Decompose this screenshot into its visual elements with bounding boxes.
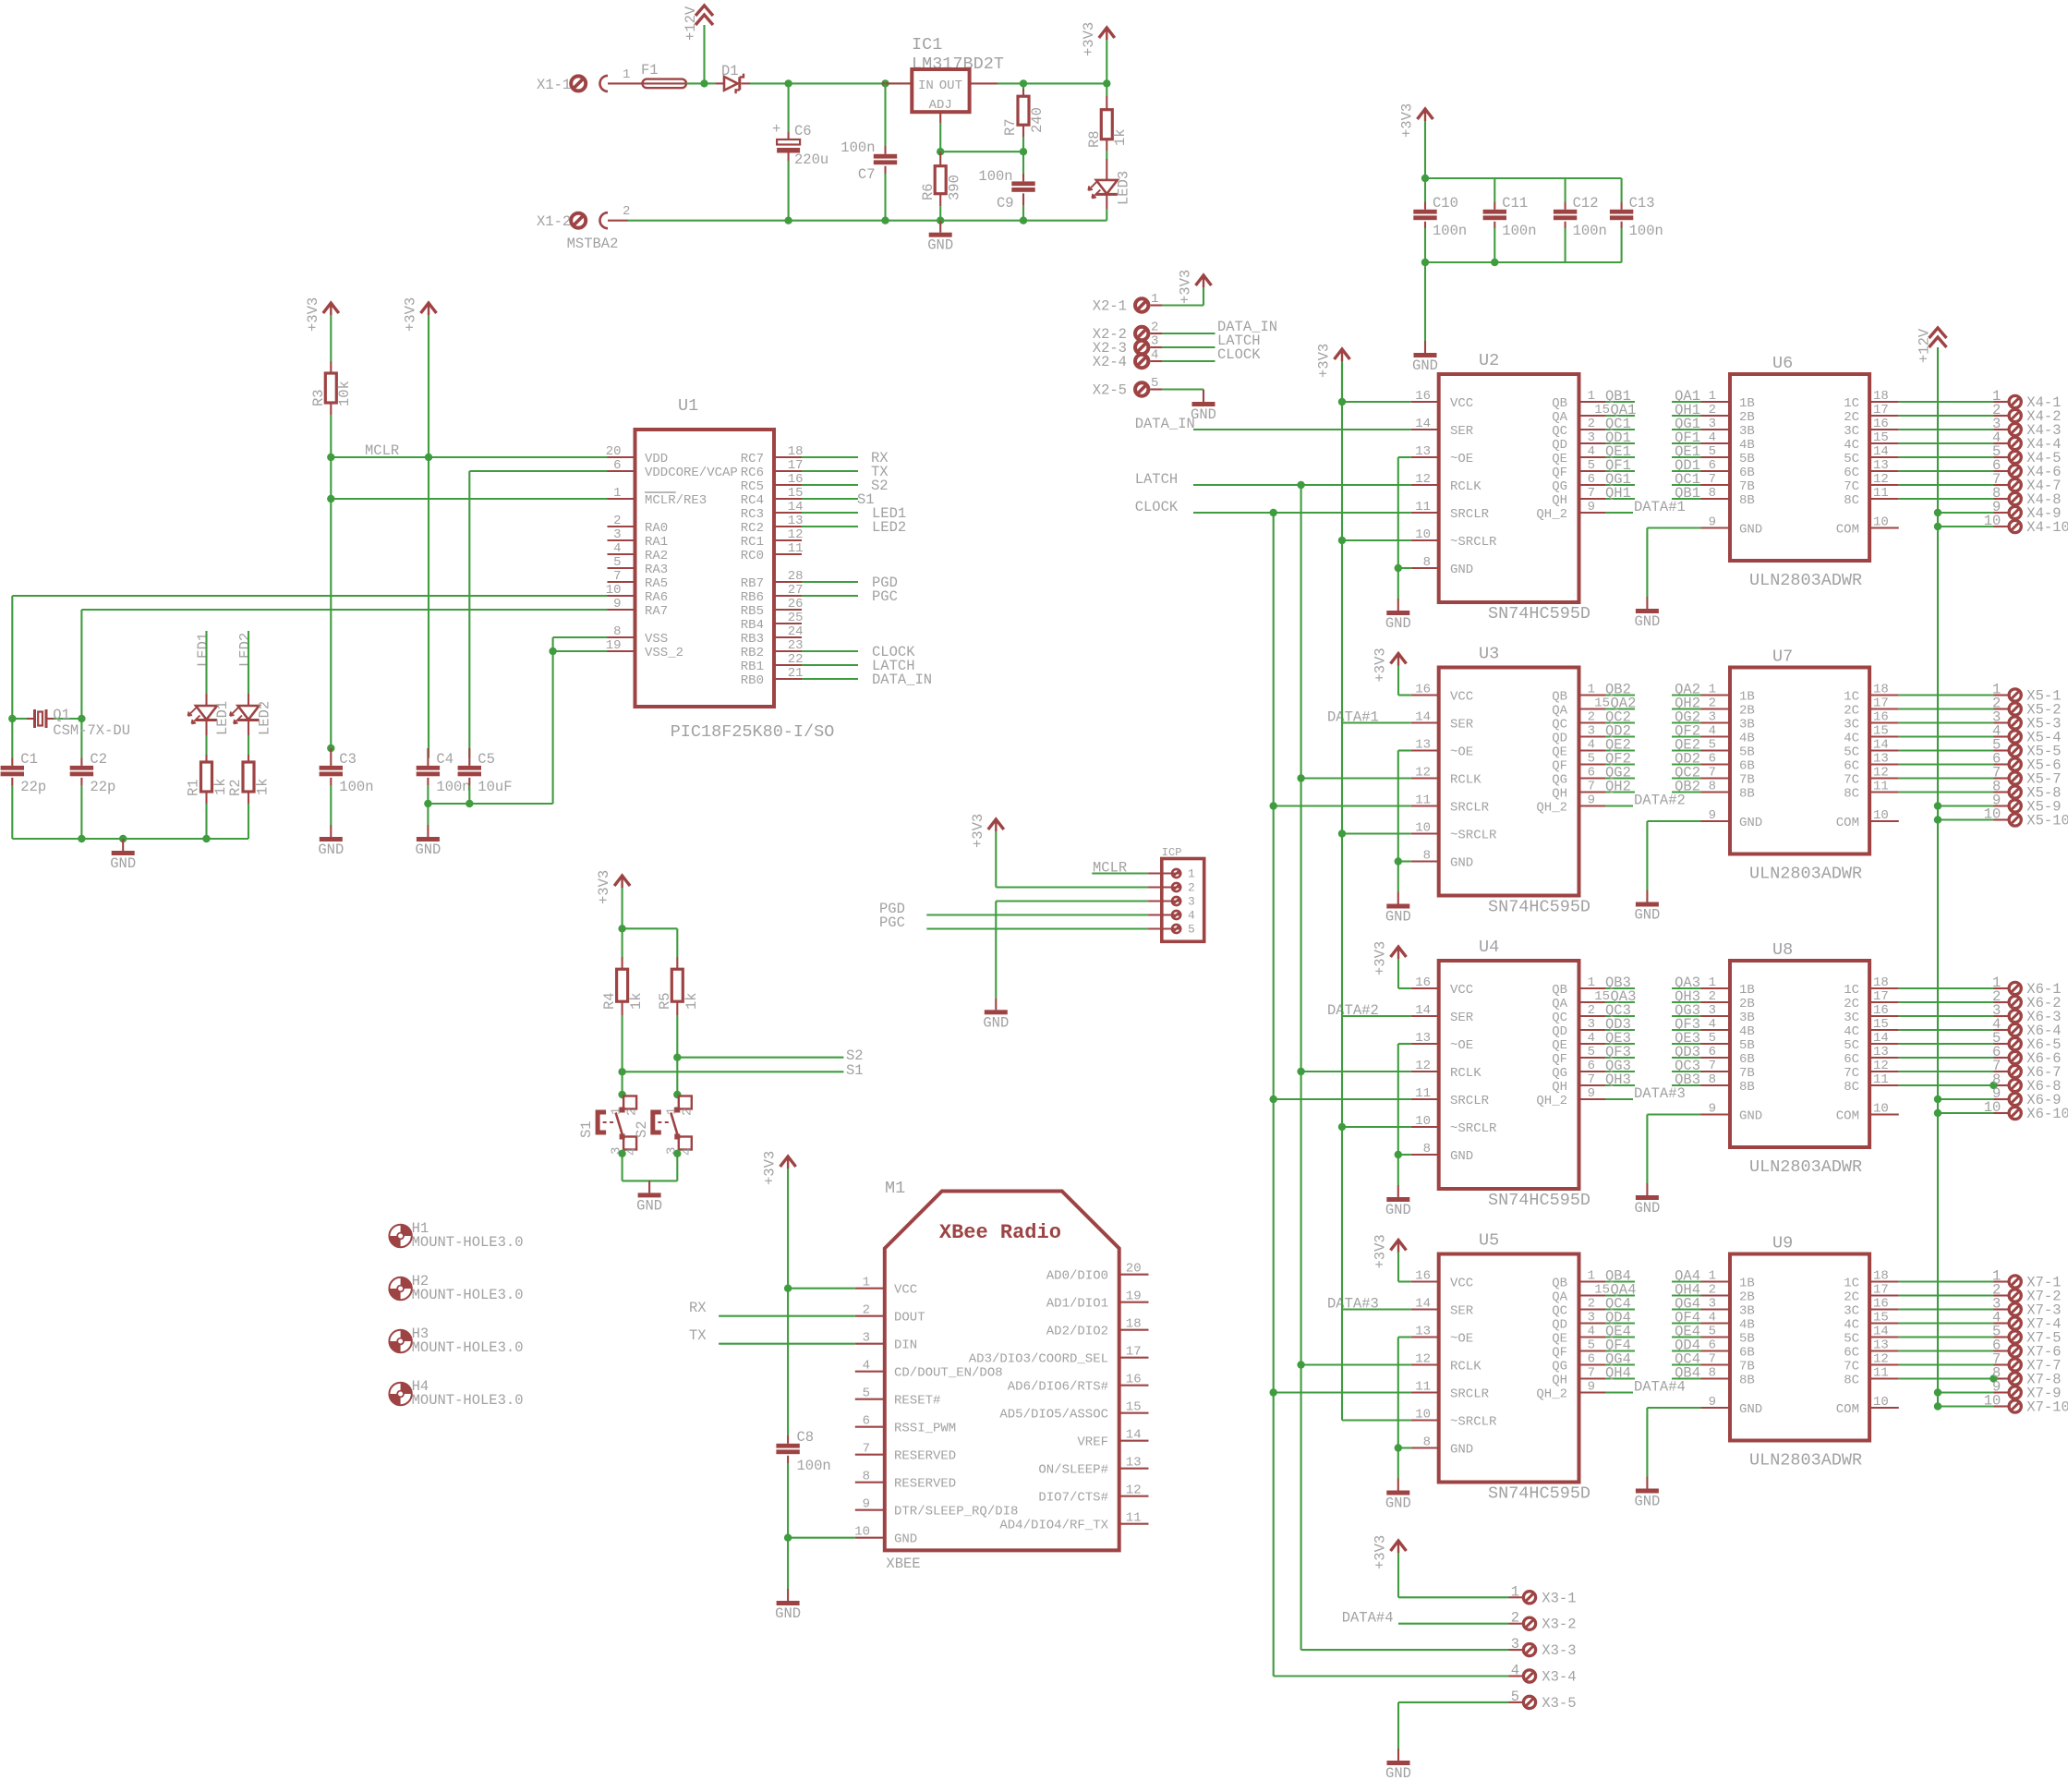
svg-text:2: 2 <box>613 514 621 528</box>
svg-text:R1: R1 <box>186 779 202 796</box>
svg-text:4: 4 <box>1709 1017 1716 1032</box>
svg-text:QG: QG <box>1552 1066 1567 1081</box>
svg-text:+12V: +12V <box>683 6 699 41</box>
svg-text:QH_2: QH_2 <box>1536 507 1567 522</box>
svg-text:MOUNT-HOLE3.0: MOUNT-HOLE3.0 <box>412 1392 524 1409</box>
svg-text:6: 6 <box>1588 1059 1595 1073</box>
svg-text:QH: QH <box>1552 493 1567 508</box>
svg-text:22p: 22p <box>90 779 115 795</box>
svg-text:M1: M1 <box>885 1179 905 1198</box>
svg-text:14: 14 <box>1873 738 1889 753</box>
svg-text:SER: SER <box>1450 424 1474 439</box>
svg-text:16: 16 <box>1126 1373 1142 1387</box>
svg-text:1: 1 <box>1588 1269 1595 1284</box>
svg-text:11: 11 <box>1126 1511 1142 1526</box>
svg-text:2: 2 <box>1709 1283 1716 1298</box>
svg-text:1k: 1k <box>255 778 272 795</box>
svg-text:U7: U7 <box>1772 648 1793 667</box>
svg-text:2: 2 <box>1588 1003 1595 1018</box>
svg-text:3: 3 <box>1588 430 1595 445</box>
svg-text:13: 13 <box>1415 738 1431 753</box>
svg-text:C4: C4 <box>436 751 454 768</box>
svg-text:RA0: RA0 <box>645 521 668 536</box>
svg-text:3: 3 <box>863 1331 870 1346</box>
svg-text:12: 12 <box>1415 1352 1431 1367</box>
svg-text:MCLR/RE3: MCLR/RE3 <box>645 493 707 508</box>
svg-text:QG: QG <box>1552 773 1567 788</box>
svg-text:PGC: PGC <box>879 914 905 931</box>
svg-text:1k: 1k <box>628 992 645 1010</box>
svg-text:SER: SER <box>1450 718 1474 733</box>
svg-text:SN74HC595D: SN74HC595D <box>1488 1484 1590 1504</box>
svg-text:X4-10: X4-10 <box>2026 519 2068 536</box>
svg-text:2C: 2C <box>1844 1290 1859 1305</box>
svg-text:2: 2 <box>1709 403 1716 418</box>
svg-text:3: 3 <box>1511 1636 1519 1653</box>
svg-text:8B: 8B <box>1739 493 1755 508</box>
svg-text:6C: 6C <box>1844 1346 1859 1361</box>
svg-text:4: 4 <box>1588 738 1595 753</box>
svg-text:15: 15 <box>1873 1311 1889 1326</box>
svg-text:GND: GND <box>1634 907 1660 924</box>
svg-text:+3V3: +3V3 <box>1373 941 1389 975</box>
svg-text:+3V3: +3V3 <box>1373 648 1389 682</box>
svg-text:3B: 3B <box>1739 1011 1755 1025</box>
svg-text:4: 4 <box>1151 348 1158 363</box>
svg-text:RA3: RA3 <box>645 563 668 577</box>
svg-text:U4: U4 <box>1479 938 1499 957</box>
svg-text:R5: R5 <box>657 992 673 1010</box>
svg-text:R8: R8 <box>1086 130 1103 148</box>
svg-text:1: 1 <box>623 67 630 82</box>
svg-text:8: 8 <box>1709 780 1716 794</box>
svg-text:13: 13 <box>1415 444 1431 459</box>
svg-text:8B: 8B <box>1739 787 1755 802</box>
svg-text:ULN2803ADWR: ULN2803ADWR <box>1749 571 1862 590</box>
svg-text:7B: 7B <box>1739 773 1755 788</box>
svg-text:GND: GND <box>983 1014 1009 1031</box>
svg-text:RC7: RC7 <box>741 452 764 466</box>
svg-text:DATA_IN: DATA_IN <box>1135 416 1195 432</box>
svg-text:6C: 6C <box>1844 466 1859 480</box>
svg-text:9: 9 <box>863 1497 870 1512</box>
svg-text:LED3: LED3 <box>1116 171 1132 205</box>
svg-text:7: 7 <box>613 569 621 584</box>
svg-text:~OE: ~OE <box>1450 452 1473 466</box>
svg-text:AD4/DIO4/RF_TX: AD4/DIO4/RF_TX <box>999 1519 1108 1533</box>
svg-text:U3: U3 <box>1479 645 1499 664</box>
svg-text:3: 3 <box>1709 417 1716 431</box>
svg-text:4: 4 <box>680 1148 695 1156</box>
svg-text:+3V3: +3V3 <box>1399 103 1416 138</box>
svg-text:PGC: PGC <box>872 588 898 605</box>
svg-text:RB6: RB6 <box>741 590 764 605</box>
svg-text:16: 16 <box>788 472 804 487</box>
svg-text:1C: 1C <box>1844 983 1859 998</box>
svg-text:RC5: RC5 <box>741 479 764 494</box>
svg-text:QH: QH <box>1552 787 1567 802</box>
svg-text:QF: QF <box>1552 1346 1567 1361</box>
svg-text:RCLK: RCLK <box>1450 1066 1481 1081</box>
svg-text:4B: 4B <box>1739 1318 1755 1333</box>
svg-text:5: 5 <box>863 1386 870 1401</box>
svg-text:6: 6 <box>1709 1045 1716 1059</box>
svg-text:QE: QE <box>1552 745 1567 760</box>
svg-text:3B: 3B <box>1739 424 1755 439</box>
svg-text:5B: 5B <box>1739 1332 1755 1347</box>
svg-text:RC6: RC6 <box>741 466 764 480</box>
svg-text:QH1: QH1 <box>1605 485 1631 502</box>
svg-text:16: 16 <box>1415 1269 1431 1284</box>
svg-text:GND: GND <box>1450 1443 1473 1458</box>
svg-text:6: 6 <box>1709 458 1716 473</box>
svg-text:18: 18 <box>1873 975 1889 990</box>
svg-text:14: 14 <box>1415 417 1431 431</box>
svg-text:20: 20 <box>606 444 622 459</box>
svg-text:24: 24 <box>788 624 804 639</box>
svg-text:R4: R4 <box>601 992 618 1010</box>
svg-text:6: 6 <box>863 1414 870 1429</box>
svg-text:GND: GND <box>318 842 344 858</box>
svg-text:GND: GND <box>1739 1109 1762 1124</box>
svg-text:QE: QE <box>1552 1038 1567 1053</box>
svg-text:LATCH: LATCH <box>1135 471 1179 488</box>
svg-text:+3V3: +3V3 <box>1316 344 1333 378</box>
svg-text:5: 5 <box>1709 1325 1716 1339</box>
svg-text:13: 13 <box>1126 1456 1142 1471</box>
svg-text:100n: 100n <box>1573 223 1607 239</box>
svg-text:6: 6 <box>1588 472 1595 487</box>
svg-text:11: 11 <box>1873 1072 1889 1087</box>
svg-text:LED1: LED1 <box>214 701 231 735</box>
svg-text:7: 7 <box>1588 1366 1595 1381</box>
svg-text:U9: U9 <box>1772 1234 1793 1253</box>
svg-text:S1: S1 <box>846 1062 864 1079</box>
svg-text:CSM-7X-DU: CSM-7X-DU <box>53 722 130 739</box>
svg-text:1: 1 <box>1511 1583 1519 1600</box>
svg-text:QB: QB <box>1552 396 1567 411</box>
svg-text:GND: GND <box>775 1605 801 1622</box>
svg-text:4: 4 <box>625 1148 640 1156</box>
svg-text:LED2: LED2 <box>257 701 273 735</box>
svg-text:LED2: LED2 <box>872 519 906 536</box>
svg-text:DIO7/CTS#: DIO7/CTS# <box>1038 1491 1108 1506</box>
svg-text:2: 2 <box>680 1108 695 1116</box>
svg-text:CLOCK: CLOCK <box>1217 346 1261 363</box>
svg-text:14: 14 <box>1873 444 1889 459</box>
svg-text:14: 14 <box>1873 1325 1889 1339</box>
svg-text:20: 20 <box>1126 1262 1142 1277</box>
svg-text:26: 26 <box>788 597 804 611</box>
svg-text:100n: 100n <box>978 168 1012 185</box>
svg-text:SN74HC595D: SN74HC595D <box>1488 604 1590 624</box>
svg-text:C8: C8 <box>797 1429 815 1446</box>
svg-text:1: 1 <box>1709 389 1716 404</box>
svg-text:C2: C2 <box>90 751 107 768</box>
svg-text:2: 2 <box>1588 710 1595 725</box>
svg-text:QC: QC <box>1552 1011 1567 1025</box>
svg-text:AD5/DIO5/ASSOC: AD5/DIO5/ASSOC <box>999 1408 1108 1423</box>
svg-text:7C: 7C <box>1844 773 1859 788</box>
svg-text:QE: QE <box>1552 452 1567 466</box>
svg-text:4B: 4B <box>1739 732 1755 746</box>
svg-text:14: 14 <box>1415 1003 1431 1018</box>
svg-text:8: 8 <box>1423 555 1431 570</box>
svg-text:27: 27 <box>788 583 804 598</box>
svg-text:RA5: RA5 <box>645 576 668 591</box>
svg-text:X7-10: X7-10 <box>2026 1399 2068 1416</box>
svg-text:7: 7 <box>1709 472 1716 487</box>
svg-text:VCC: VCC <box>1450 690 1473 705</box>
svg-text:7B: 7B <box>1739 479 1755 494</box>
svg-text:10: 10 <box>1415 1114 1431 1129</box>
svg-text:SRCLR: SRCLR <box>1450 507 1490 522</box>
svg-text:QE: QE <box>1552 1332 1567 1347</box>
svg-text:DATA_IN: DATA_IN <box>872 672 932 688</box>
svg-text:1C: 1C <box>1844 396 1859 411</box>
svg-text:2: 2 <box>1151 321 1158 335</box>
svg-text:VCC: VCC <box>1450 396 1473 411</box>
svg-text:4B: 4B <box>1739 438 1755 453</box>
svg-text:4: 4 <box>863 1359 870 1374</box>
svg-text:11: 11 <box>1415 1380 1431 1395</box>
svg-text:2C: 2C <box>1844 410 1859 425</box>
svg-text:2: 2 <box>1709 989 1716 1004</box>
svg-text:S1: S1 <box>578 1120 595 1138</box>
svg-text:3: 3 <box>1188 895 1195 909</box>
svg-text:CD/DOUT_EN/DO8: CD/DOUT_EN/DO8 <box>894 1366 1003 1381</box>
svg-text:2: 2 <box>623 204 630 219</box>
svg-text:CLOCK: CLOCK <box>1135 499 1179 515</box>
svg-text:GND: GND <box>1739 523 1762 538</box>
svg-text:QD: QD <box>1552 1024 1567 1039</box>
svg-text:GND: GND <box>1450 1149 1473 1164</box>
svg-text:RA7: RA7 <box>645 604 668 619</box>
svg-text:~SRCLR: ~SRCLR <box>1450 1415 1497 1430</box>
svg-text:8C: 8C <box>1844 1080 1859 1095</box>
svg-text:GND: GND <box>1385 1765 1411 1782</box>
svg-text:U5: U5 <box>1479 1231 1499 1251</box>
svg-text:GND: GND <box>1739 1402 1762 1417</box>
svg-text:100n: 100n <box>1433 223 1467 239</box>
svg-text:12: 12 <box>1873 1352 1889 1367</box>
svg-text:RESERVED: RESERVED <box>894 1477 956 1492</box>
svg-text:8: 8 <box>1423 849 1431 864</box>
svg-text:4: 4 <box>1588 1325 1595 1339</box>
svg-text:+3V3: +3V3 <box>1373 1234 1389 1268</box>
svg-text:2: 2 <box>863 1303 870 1318</box>
svg-text:QH2: QH2 <box>1605 779 1631 795</box>
svg-text:19: 19 <box>1126 1290 1142 1304</box>
svg-text:DOUT: DOUT <box>894 1311 925 1326</box>
svg-text:C13: C13 <box>1629 195 1655 212</box>
svg-text:X2-5: X2-5 <box>1093 382 1127 399</box>
svg-text:7: 7 <box>1709 766 1716 781</box>
svg-text:3: 3 <box>1709 710 1716 725</box>
svg-text:GND: GND <box>1634 1494 1660 1510</box>
svg-text:RCLK: RCLK <box>1450 773 1481 788</box>
svg-text:2B: 2B <box>1739 1290 1755 1305</box>
svg-text:8C: 8C <box>1844 493 1859 508</box>
svg-text:17: 17 <box>1873 989 1889 1004</box>
svg-text:6: 6 <box>1709 1338 1716 1353</box>
svg-text:+12V: +12V <box>1917 328 1933 363</box>
svg-text:QF: QF <box>1552 1052 1567 1067</box>
svg-text:XBee Radio: XBee Radio <box>939 1221 1061 1244</box>
svg-text:RCLK: RCLK <box>1450 1360 1481 1374</box>
svg-text:100n: 100n <box>797 1458 831 1474</box>
svg-text:3: 3 <box>1588 724 1595 739</box>
svg-text:LED2: LED2 <box>237 633 254 667</box>
svg-text:100n: 100n <box>1502 223 1536 239</box>
svg-text:14: 14 <box>1415 1297 1431 1312</box>
svg-text:3: 3 <box>1151 334 1158 349</box>
svg-text:C3: C3 <box>339 751 357 768</box>
svg-text:QB: QB <box>1552 1277 1567 1291</box>
svg-text:1: 1 <box>1188 867 1195 881</box>
svg-text:C12: C12 <box>1573 195 1599 212</box>
svg-text:RX: RX <box>689 1300 707 1316</box>
svg-text:6B: 6B <box>1739 466 1755 480</box>
svg-text:9: 9 <box>1709 515 1716 530</box>
svg-text:RC3: RC3 <box>741 507 764 522</box>
svg-text:4: 4 <box>1511 1663 1519 1679</box>
svg-text:1B: 1B <box>1739 983 1755 998</box>
svg-text:DATA#4: DATA#4 <box>1342 1610 1394 1627</box>
svg-text:GND: GND <box>415 842 441 858</box>
svg-text:U8: U8 <box>1772 940 1793 960</box>
svg-text:~OE: ~OE <box>1450 745 1473 760</box>
svg-text:TX: TX <box>689 1327 707 1344</box>
svg-text:VCC: VCC <box>1450 1277 1473 1291</box>
svg-text:1C: 1C <box>1844 690 1859 705</box>
svg-text:C10: C10 <box>1433 195 1458 212</box>
svg-text:10uF: 10uF <box>478 779 512 795</box>
svg-text:2B: 2B <box>1739 410 1755 425</box>
svg-text:RC0: RC0 <box>741 549 764 563</box>
svg-text:8C: 8C <box>1844 1374 1859 1388</box>
svg-text:COM: COM <box>1836 1402 1859 1417</box>
svg-text:4C: 4C <box>1844 438 1859 453</box>
svg-text:C5: C5 <box>478 751 495 768</box>
svg-text:QH_2: QH_2 <box>1536 1094 1567 1108</box>
svg-text:QC: QC <box>1552 424 1567 439</box>
svg-text:16: 16 <box>1873 417 1889 431</box>
svg-text:7: 7 <box>1588 780 1595 794</box>
svg-text:17: 17 <box>1873 1283 1889 1298</box>
svg-text:100n: 100n <box>841 139 875 156</box>
svg-text:MSTBA2: MSTBA2 <box>567 236 619 252</box>
svg-text:RB5: RB5 <box>741 604 764 619</box>
svg-text:GND: GND <box>927 237 953 254</box>
svg-text:RC1: RC1 <box>741 535 764 550</box>
svg-text:5: 5 <box>1588 1045 1595 1059</box>
svg-text:C11: C11 <box>1502 195 1528 212</box>
svg-text:2: 2 <box>1188 881 1195 895</box>
svg-text:5: 5 <box>1588 458 1595 473</box>
svg-text:5: 5 <box>1588 1338 1595 1353</box>
svg-text:COM: COM <box>1836 1109 1859 1124</box>
svg-text:LED1: LED1 <box>195 633 212 667</box>
svg-text:C9: C9 <box>997 195 1014 212</box>
svg-text:11: 11 <box>1415 793 1431 808</box>
svg-text:16: 16 <box>1873 1297 1889 1312</box>
svg-text:10: 10 <box>1415 1408 1431 1423</box>
svg-text:RC2: RC2 <box>741 521 764 536</box>
svg-text:~OE: ~OE <box>1450 1332 1473 1347</box>
svg-text:11: 11 <box>1873 780 1889 794</box>
svg-text:X3-1: X3-1 <box>1542 1590 1576 1606</box>
svg-text:QC: QC <box>1552 1304 1567 1319</box>
svg-text:U6: U6 <box>1772 354 1793 373</box>
svg-text:QA: QA <box>1552 704 1567 719</box>
svg-text:1B: 1B <box>1739 1277 1755 1291</box>
svg-text:+3V3: +3V3 <box>305 297 321 332</box>
svg-text:10: 10 <box>1873 1102 1889 1117</box>
svg-text:GND: GND <box>1739 816 1762 830</box>
svg-text:4B: 4B <box>1739 1024 1755 1039</box>
svg-text:U2: U2 <box>1479 351 1499 370</box>
svg-text:10: 10 <box>1415 821 1431 836</box>
svg-text:8: 8 <box>863 1470 870 1484</box>
svg-text:AD6/DIO6/RTS#: AD6/DIO6/RTS# <box>1008 1380 1108 1395</box>
svg-text:R7: R7 <box>1002 118 1019 136</box>
svg-text:2B: 2B <box>1739 997 1755 1011</box>
svg-text:10: 10 <box>1873 808 1889 823</box>
svg-text:3C: 3C <box>1844 1011 1859 1025</box>
svg-text:ADJ: ADJ <box>929 98 952 113</box>
svg-text:11: 11 <box>788 541 804 556</box>
svg-text:5C: 5C <box>1844 452 1859 466</box>
svg-text:5B: 5B <box>1739 745 1755 760</box>
svg-text:SN74HC595D: SN74HC595D <box>1488 1191 1590 1210</box>
svg-text:11: 11 <box>1415 1086 1431 1101</box>
svg-text:S2: S2 <box>634 1120 650 1138</box>
svg-text:14: 14 <box>1415 710 1431 725</box>
svg-text:QH3: QH3 <box>1605 1072 1631 1088</box>
svg-text:14: 14 <box>788 500 804 515</box>
svg-text:GND: GND <box>1385 1495 1411 1512</box>
svg-text:AD1/DIO1: AD1/DIO1 <box>1046 1297 1108 1312</box>
svg-text:12: 12 <box>1415 472 1431 487</box>
svg-text:3: 3 <box>1588 1017 1595 1032</box>
svg-text:6B: 6B <box>1739 1346 1755 1361</box>
svg-text:12: 12 <box>1873 472 1889 487</box>
svg-text:RB7: RB7 <box>741 576 764 591</box>
svg-text:16: 16 <box>1873 710 1889 725</box>
svg-text:8C: 8C <box>1844 787 1859 802</box>
svg-text:2C: 2C <box>1844 997 1859 1011</box>
svg-text:ULN2803ADWR: ULN2803ADWR <box>1749 1451 1862 1471</box>
svg-text:~SRCLR: ~SRCLR <box>1450 535 1497 550</box>
svg-text:X1-2: X1-2 <box>537 213 571 230</box>
svg-text:SN74HC595D: SN74HC595D <box>1488 898 1590 917</box>
svg-text:1: 1 <box>1588 975 1595 990</box>
svg-text:6C: 6C <box>1844 759 1859 774</box>
svg-text:8: 8 <box>1709 1366 1716 1381</box>
svg-text:5: 5 <box>1709 738 1716 753</box>
svg-text:QH4: QH4 <box>1605 1365 1631 1382</box>
svg-text:15: 15 <box>1873 430 1889 445</box>
svg-text:~SRCLR: ~SRCLR <box>1450 829 1497 843</box>
svg-text:12: 12 <box>1873 766 1889 781</box>
svg-text:1: 1 <box>863 1276 870 1290</box>
svg-text:4C: 4C <box>1844 1318 1859 1333</box>
svg-text:4: 4 <box>613 541 621 556</box>
svg-text:QD: QD <box>1552 1318 1567 1333</box>
svg-text:14: 14 <box>1873 1031 1889 1046</box>
svg-text:SRCLR: SRCLR <box>1450 1094 1490 1108</box>
